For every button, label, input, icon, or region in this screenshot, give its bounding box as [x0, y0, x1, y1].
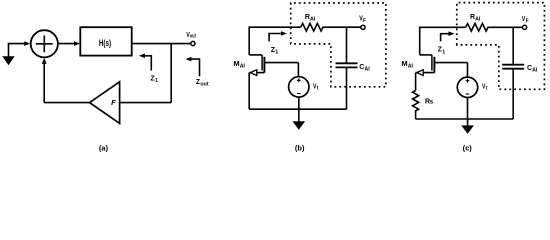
svg-text:F: F — [526, 18, 530, 24]
svg-text:AI: AI — [364, 66, 370, 72]
svg-text:1: 1 — [155, 78, 158, 84]
svg-text:1: 1 — [275, 50, 278, 56]
svg-text:(c): (c) — [463, 144, 473, 153]
svg-text:F: F — [111, 98, 116, 107]
svg-text:H(s): H(s) — [99, 38, 111, 48]
svg-text:out: out — [200, 82, 208, 88]
svg-text:AI: AI — [408, 63, 414, 69]
svg-text:t: t — [486, 85, 488, 91]
svg-text:AI: AI — [475, 17, 481, 23]
svg-text:t: t — [317, 85, 319, 91]
svg-text:AI: AI — [240, 63, 246, 69]
svg-text:out: out — [190, 34, 196, 40]
svg-text:1: 1 — [442, 49, 445, 55]
svg-text:AI: AI — [532, 68, 538, 74]
svg-text:s: s — [430, 99, 434, 105]
svg-text:(b): (b) — [295, 144, 305, 153]
svg-text:F: F — [363, 18, 367, 24]
svg-text:AI: AI — [310, 17, 316, 23]
svg-text:(a): (a) — [99, 144, 109, 153]
